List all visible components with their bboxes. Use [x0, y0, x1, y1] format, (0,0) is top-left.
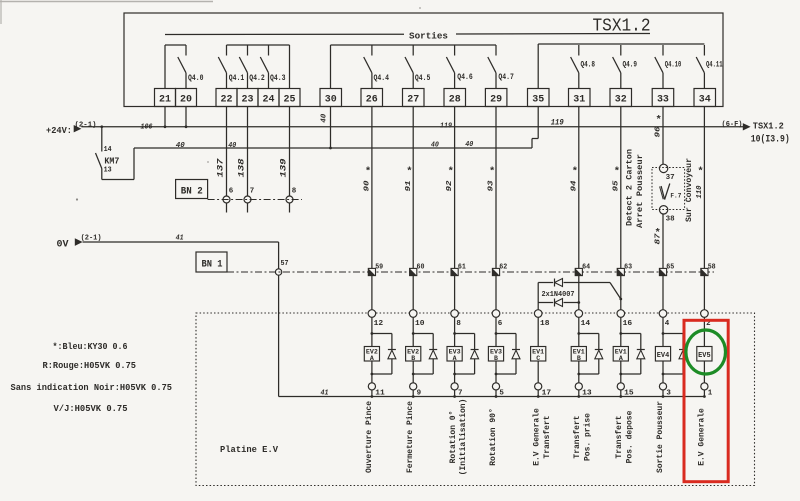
wire coil EV4 to terminal 3	[662, 361, 664, 383]
svg-text:20: 20	[180, 94, 192, 106]
platine entry terminal 16 (circle)	[617, 310, 625, 318]
svg-text:25: 25	[284, 94, 296, 106]
platine entry terminal 2 (circle)	[701, 310, 709, 318]
flyback diode across EV3 B	[495, 332, 498, 335]
svg-text:Q4.10: Q4.10	[665, 61, 682, 70]
platine terminal 9 (circle)	[410, 383, 417, 390]
wire 41 (0V common rail inside platine)	[279, 396, 705, 398]
svg-text:18: 18	[540, 320, 550, 328]
wire terminal 15 to 0V rail	[620, 390, 622, 397]
svg-text:21: 21	[159, 94, 171, 106]
wire common drop to terminal 35	[537, 44, 539, 89]
contact Q4.0 (PLC output contact)	[185, 45, 187, 56]
bracket wire group Q4.1-Q4.3 (terminals 22-25)	[227, 44, 290, 46]
terminal 25 (TSX1.2 output terminal)	[279, 89, 300, 107]
flyback diode across EV2 A	[371, 332, 374, 335]
terminal strip BN1 box	[196, 252, 227, 272]
wire 0V from BN1-57 into Platine (to EV common rail)	[278, 275, 280, 396]
flyback diode across EV3 A	[453, 332, 456, 335]
svg-text:62: 62	[499, 264, 507, 272]
svg-text:Q4.8: Q4.8	[581, 61, 596, 70]
platine entry terminal 14 (circle)	[575, 310, 583, 318]
solenoid coil EV2 B	[406, 347, 421, 362]
terminal 20 (TSX1.2 output terminal)	[176, 89, 197, 107]
svg-text:Sur Convoyeur: Sur Convoyeur	[684, 158, 694, 222]
wire 96 (terminal 33 to detector F.7)	[662, 107, 664, 165]
svg-text:Q4.11: Q4.11	[706, 61, 723, 70]
wire 110 (output 34 to EV5)	[703, 107, 705, 310]
svg-text:Pos. prise: Pos. prise	[582, 413, 592, 461]
wire entry 6 to coil EV3 B	[495, 317, 497, 346]
flyback diode across EV2 B	[412, 332, 415, 335]
arrow to sheet (6-F) TSX1.2 input	[743, 123, 751, 130]
svg-text:28: 28	[449, 94, 461, 106]
svg-text:6: 6	[229, 188, 234, 196]
wire coil EV3 A to terminal 7	[454, 361, 456, 383]
svg-text:95: 95	[612, 180, 620, 192]
svg-text:Fermeture Pince: Fermeture Pince	[405, 401, 415, 473]
svg-text:23: 23	[242, 94, 254, 106]
svg-text:8: 8	[292, 188, 297, 196]
wire coil EV3 B to terminal 5	[495, 361, 497, 383]
wire entry 10 to coil EV2 B	[412, 317, 414, 346]
svg-text:*: *	[656, 115, 662, 127]
platine entry terminal 4 (circle)	[659, 310, 667, 318]
svg-text:Rotation 0°: Rotation 0°	[448, 411, 458, 464]
contact KM7 (relay contact, pins 14-13)	[101, 127, 103, 152]
svg-text:26: 26	[366, 94, 378, 106]
bracket wire group Q4.0 (terminals 21-20)	[165, 44, 186, 46]
wire 40 step to terminal 35 drop	[531, 139, 533, 149]
wire entry 2 to coil EV5	[703, 317, 705, 346]
wire terminal 7 to 0V rail	[454, 390, 456, 397]
svg-text:*: *	[489, 166, 495, 178]
terminal 31 (TSX1.2 output terminal)	[569, 89, 591, 107]
solenoid coil EV3 A	[447, 347, 462, 362]
svg-text:16: 16	[623, 320, 633, 328]
BN1 terminal 58 (square)	[701, 268, 708, 275]
wire common drop to terminal 25	[289, 45, 291, 89]
svg-text:Q4.0: Q4.0	[188, 74, 204, 83]
BN1 terminal 64 (square)	[575, 268, 582, 275]
svg-text:Sans indication Noir:H05VK 0.7: Sans indication Noir:H05VK 0.75	[11, 382, 173, 393]
wire 40 (switched +24V rail from KM7)	[134, 147, 532, 149]
svg-text:14: 14	[104, 146, 113, 154]
wire common drop to terminal 30	[330, 45, 332, 89]
wire 138 (terminal 23 to BN2 terminal 7)	[247, 107, 249, 197]
scan page edge mark top-left	[0, 1, 213, 3]
svg-text:R:Rouge:H05VK 0.75: R:Rouge:H05VK 0.75	[43, 360, 137, 371]
flyback diode across EV1 A	[619, 332, 622, 335]
svg-text:4: 4	[665, 320, 670, 328]
svg-text:119: 119	[440, 123, 452, 131]
svg-text:40: 40	[228, 142, 236, 150]
wire entry 18 to coil EV1 C	[537, 317, 539, 346]
platine terminal 7 (circle)	[451, 383, 458, 390]
svg-text:*: *	[406, 166, 412, 178]
contact Q4.1 (PLC output contact)	[226, 45, 228, 56]
svg-text:40: 40	[320, 113, 328, 122]
terminal 32 (TSX1.2 output terminal)	[610, 89, 632, 107]
svg-text:Q4.9: Q4.9	[623, 61, 638, 70]
contact Q4.4 (PLC output contact)	[371, 45, 373, 56]
svg-text:+24V:: +24V:	[46, 125, 72, 136]
terminal 34 (TSX1.2 output terminal)	[694, 89, 716, 107]
wire stub below BN2 terminal 7	[247, 203, 249, 213]
svg-text:Transfert: Transfert	[542, 415, 552, 458]
solenoid coil EV4	[655, 347, 670, 362]
svg-text:Transfert: Transfert	[614, 415, 624, 458]
wire 106 / 119 (+24V rail to outputs and to sheet 6-F)	[81, 126, 743, 128]
wire 92 (output 28 down to platine)	[454, 107, 456, 310]
terminal 24 (TSX1.2 output terminal)	[258, 89, 279, 107]
svg-text:Q4.3: Q4.3	[270, 74, 286, 83]
svg-text:Q4.6: Q4.6	[457, 73, 473, 82]
contact Q4.7 (PLC output contact)	[495, 45, 497, 56]
svg-text:*:Bleu:KY30 0.6: *:Bleu:KY30 0.6	[53, 341, 128, 352]
wire terminal 3 to 0V rail	[662, 390, 664, 397]
terminal strip BN2 box	[176, 180, 208, 199]
PLC module TSX1.2 outline box	[124, 13, 723, 107]
wire diode node to platine entry 18	[537, 283, 539, 310]
wire entry 16 to coil EV1 A	[620, 317, 622, 346]
svg-text:58: 58	[708, 264, 716, 272]
contact Q4.8 (PLC output contact)	[578, 45, 580, 56]
solenoid coil EV1 B	[571, 347, 586, 362]
terminal 30 (TSX1.2 output terminal)	[320, 89, 342, 107]
wire terminal 20 to 119 rail	[185, 107, 187, 127]
green highlight circle around EV5	[686, 330, 726, 374]
svg-text:Sortie Pousseur: Sortie Pousseur	[655, 401, 665, 473]
wire 91 (output 27 down to platine)	[412, 107, 414, 310]
svg-text:*: *	[614, 166, 620, 178]
BN1 terminal 65 (square)	[659, 268, 666, 275]
svg-text:40: 40	[431, 142, 439, 150]
svg-text:0V: 0V	[57, 239, 70, 251]
platine terminal 11 (circle)	[368, 383, 375, 390]
svg-text:Q4.2: Q4.2	[249, 74, 265, 83]
svg-text:Ouverture Pince: Ouverture Pince	[364, 401, 374, 473]
platine entry terminal 18 (circle)	[534, 310, 542, 318]
solenoid coil EV2 A	[364, 347, 379, 362]
platine entry terminal 12 (circle)	[368, 310, 376, 318]
svg-text:59: 59	[375, 264, 383, 272]
bracket wire group Q4.4-Q4.7 (terminals 30,26-29)	[331, 44, 497, 46]
BN2 terminal 7	[244, 196, 251, 203]
svg-text:E.V Generale: E.V Generale	[696, 408, 706, 466]
diode D2 (1N4007, wire 14 to EV1C node)	[538, 302, 553, 304]
wire coil EV1 A to terminal 15	[620, 361, 622, 383]
svg-text:7: 7	[250, 188, 255, 196]
svg-text:40: 40	[465, 141, 473, 149]
platine entry terminal 8 (circle)	[451, 310, 459, 318]
svg-text:22: 22	[221, 94, 233, 106]
terminal 21 (TSX1.2 output terminal)	[155, 89, 176, 107]
svg-text:37: 37	[666, 174, 675, 182]
wire KM7 to 40 rail riser	[102, 179, 134, 181]
wire common drop to terminal 21	[164, 45, 166, 89]
wire coil EV2 A to terminal 11	[371, 361, 373, 383]
svg-text:TSX1.2: TSX1.2	[753, 121, 784, 132]
terminal 27 (TSX1.2 output terminal)	[403, 89, 425, 107]
wire entry 8 to coil EV3 A	[454, 317, 456, 346]
svg-text:Detect 2 Carton: Detect 2 Carton	[625, 149, 635, 226]
svg-text:61: 61	[458, 264, 466, 272]
solenoid coil EV1 A	[613, 347, 628, 362]
svg-text:6: 6	[498, 320, 503, 328]
BN1 terminal 62 (square)	[492, 268, 499, 275]
svg-text:*: *	[448, 166, 454, 178]
svg-text:Platine E.V: Platine E.V	[220, 444, 278, 455]
wire 90 (output 26 down to platine)	[371, 107, 373, 310]
svg-text:60: 60	[417, 264, 425, 272]
svg-text:63: 63	[624, 264, 632, 272]
svg-text:V/J:H05VK 0.75: V/J:H05VK 0.75	[54, 403, 128, 414]
svg-text:40: 40	[176, 142, 185, 150]
svg-text:8: 8	[456, 320, 461, 328]
svg-text:14: 14	[581, 320, 591, 328]
wire 139 (terminal 25 to BN2 terminal 8)	[289, 107, 291, 197]
svg-text:119: 119	[551, 120, 564, 128]
svg-text:91: 91	[405, 181, 413, 192]
flyback diode across EV1 B	[577, 332, 580, 335]
contact Q4.2 (PLC output contact)	[247, 45, 249, 56]
svg-text:12: 12	[374, 320, 384, 328]
BN2 terminal 8	[286, 196, 293, 203]
svg-text:96: 96	[655, 126, 663, 138]
svg-text:24: 24	[263, 94, 275, 106]
svg-text:(2-1): (2-1)	[81, 234, 102, 242]
platine terminal 13 (circle)	[575, 383, 582, 390]
svg-text:Q4.1: Q4.1	[229, 74, 245, 83]
svg-text:64: 64	[582, 264, 590, 272]
solenoid coil EV3 B	[488, 347, 503, 362]
svg-text:(Initialisation): (Initialisation)	[458, 399, 468, 476]
contact Q4.6 (PLC output contact)	[454, 45, 456, 56]
BN1 terminal 59 (square)	[368, 268, 375, 275]
diode D1 (1N4007, wire 16 to EV1C node)	[538, 282, 553, 284]
wire stub below BN2 terminal 8	[289, 203, 291, 213]
svg-text:Q4.5: Q4.5	[415, 74, 431, 83]
wire entry 14 to coil EV1 B	[578, 317, 580, 346]
wire stub below BN2 terminal 6	[226, 203, 228, 213]
red highlight box around EV5 column	[684, 320, 728, 481]
svg-text:KM7: KM7	[104, 157, 119, 167]
dotted enclosure of detector F.7	[652, 168, 685, 210]
solenoid coil EV5	[697, 347, 712, 362]
terminal 28 (TSX1.2 output terminal)	[444, 89, 466, 107]
svg-text:BN 2: BN 2	[181, 186, 203, 198]
BN1 strip dash-dot line	[227, 271, 714, 273]
svg-text:65: 65	[666, 264, 674, 272]
svg-text:Q4.4: Q4.4	[374, 74, 390, 83]
svg-text:41: 41	[321, 389, 329, 397]
wire terminal 9 to 0V rail	[412, 390, 414, 397]
platine terminal 3 (circle)	[659, 383, 666, 390]
detector terminal 38 (circle)	[659, 206, 667, 214]
wire coil EV2 B to terminal 9	[412, 361, 414, 383]
platine terminal 1 (circle)	[701, 383, 708, 390]
terminal 22 (TSX1.2 output terminal)	[216, 89, 237, 107]
solenoid coil EV1 C	[531, 347, 546, 362]
wire terminal 5 to 0V rail	[495, 390, 497, 397]
contact Q4.9 (PLC output contact)	[620, 45, 622, 56]
BN2 strip dash-dot line	[208, 199, 302, 201]
BN1 terminal 61 (square)	[451, 268, 458, 275]
svg-text:*: *	[365, 166, 371, 178]
wire 137 (terminal 22 to BN2 terminal 6)	[226, 107, 228, 197]
svg-text:Q4.7: Q4.7	[498, 73, 514, 82]
wire coil EV1 B to terminal 13	[578, 361, 580, 383]
svg-text:94: 94	[570, 180, 578, 192]
wire terminal 30 down to 40 rail	[330, 107, 332, 149]
svg-text:41: 41	[176, 234, 184, 242]
platine terminal 5 (circle)	[492, 383, 499, 390]
svg-text:13: 13	[104, 167, 112, 175]
svg-text:38: 38	[666, 216, 676, 224]
contact Q4.11 (PLC output contact)	[703, 45, 705, 56]
platine terminal 15 (circle)	[617, 383, 624, 390]
svg-text:Arret Pousseur: Arret Pousseur	[635, 154, 645, 228]
svg-text:EV4: EV4	[657, 352, 670, 360]
platine terminal 17 (circle)	[535, 383, 542, 390]
detector terminal 37 (circle)	[659, 164, 667, 172]
svg-text:EV5: EV5	[698, 352, 711, 360]
contact Q4.5 (PLC output contact)	[412, 45, 414, 56]
svg-text:2x1N4007: 2x1N4007	[542, 291, 575, 299]
platine entry terminal 6 (circle)	[492, 310, 500, 318]
svg-text:*: *	[572, 166, 578, 178]
svg-text:Sorties: Sorties	[409, 31, 448, 42]
wire terminal 13 to 0V rail	[578, 390, 580, 397]
wire terminal 21 to +24V rail	[164, 107, 166, 127]
detector F.7 switch element (Detect 2 Carton)	[661, 186, 665, 200]
svg-text:90: 90	[364, 180, 372, 192]
svg-text:E.V Generale: E.V Generale	[531, 408, 541, 466]
svg-text:92: 92	[446, 180, 454, 192]
svg-text:31: 31	[573, 94, 585, 106]
svg-text:137: 137	[216, 157, 226, 177]
wire 93 (output 29 down to platine)	[495, 107, 497, 310]
svg-text:*: *	[697, 166, 703, 178]
wire coil EV1 C to terminal 17	[537, 361, 539, 383]
wire terminal 1 to 0V rail	[703, 390, 705, 397]
svg-text:110: 110	[696, 185, 704, 198]
flyback diode across EV4	[662, 332, 665, 335]
terminal 29 (TSX1.2 output terminal)	[485, 89, 507, 107]
contact Q4.3 (PLC output contact)	[268, 45, 270, 56]
platine entry terminal 10 (circle)	[409, 310, 417, 318]
svg-text:33: 33	[657, 94, 669, 106]
svg-text:106: 106	[141, 124, 153, 132]
terminal 33 (TSX1.2 output terminal)	[652, 89, 674, 107]
node junction +24V / KM7 branch	[100, 125, 103, 128]
Platine E.V enclosure (dotted box)	[196, 313, 755, 486]
svg-text:F.7: F.7	[670, 193, 681, 200]
wire terminal 35 down to 40 rail	[537, 107, 539, 139]
svg-text:Pos. depose: Pos. depose	[624, 411, 634, 464]
BN1 terminal 63 (square)	[617, 268, 624, 275]
wire 95 (output 32 down to platine)	[620, 107, 622, 310]
wire entry 4 to coil EV4	[662, 317, 664, 346]
svg-text:Transfert: Transfert	[572, 415, 582, 458]
BN1 terminal 57 (circle)	[275, 269, 281, 275]
wire terminal 17 to 0V rail	[537, 390, 539, 397]
wire 87 (detector to BN1 terminal 65)	[662, 214, 664, 310]
BN2 terminal 6	[223, 196, 230, 203]
svg-text:10: 10	[415, 320, 425, 328]
svg-text:27: 27	[407, 94, 419, 106]
wire 94 (output 31 down to platine)	[578, 107, 580, 310]
Sorties label with rule lines	[165, 33, 404, 35]
svg-text:34: 34	[699, 94, 711, 106]
svg-text:57: 57	[281, 260, 289, 268]
wire 0V drop to BN1 terminal 57	[278, 242, 280, 269]
terminal 26 (TSX1.2 output terminal)	[361, 89, 383, 107]
svg-text:138: 138	[237, 159, 247, 178]
svg-text:10(I3.9): 10(I3.9)	[751, 134, 790, 145]
wire coil EV5 to terminal 1	[703, 361, 705, 383]
terminal 23 (TSX1.2 output terminal)	[237, 89, 258, 107]
svg-text:87: 87	[654, 233, 662, 245]
svg-text:93: 93	[488, 180, 496, 192]
svg-text:32: 32	[615, 94, 627, 106]
svg-text:1: 1	[708, 390, 713, 398]
wire terminal 11 to 0V rail	[371, 390, 373, 397]
svg-text:Rotation 90°: Rotation 90°	[488, 408, 498, 466]
contact Q4.10 (PLC output contact)	[662, 45, 664, 56]
svg-text:139: 139	[279, 159, 289, 178]
svg-text:BN 1: BN 1	[202, 259, 223, 271]
svg-text:(6-F): (6-F)	[722, 121, 743, 129]
bracket wire group Q4.8-Q4.11 (terminals 35,31-34)	[538, 43, 704, 45]
wire entry 12 to coil EV2 A	[371, 317, 373, 346]
svg-text:35: 35	[532, 94, 544, 106]
svg-text:29: 29	[490, 94, 502, 106]
BN1 terminal 60 (square)	[410, 268, 417, 275]
terminal 35 (TSX1.2 output terminal)	[528, 89, 550, 107]
wire 41 (0V rail)	[83, 241, 279, 243]
svg-text:30: 30	[325, 94, 337, 106]
